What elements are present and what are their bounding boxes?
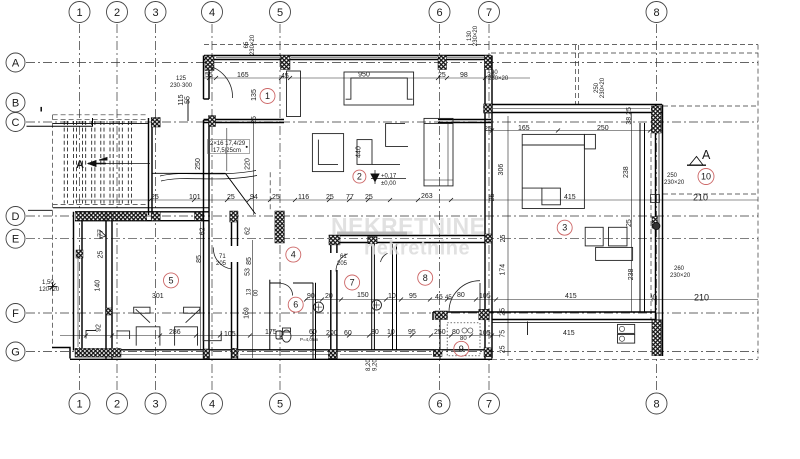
svg-text:210: 210 (694, 293, 709, 303)
svg-text:25: 25 (489, 193, 496, 201)
svg-text:101: 101 (189, 194, 201, 201)
svg-text:169: 169 (243, 307, 250, 319)
svg-text:1: 1 (76, 399, 82, 411)
svg-text:286: 286 (169, 329, 181, 336)
svg-text:301: 301 (152, 293, 164, 300)
svg-text:3: 3 (152, 399, 158, 411)
svg-text:25: 25 (227, 194, 235, 201)
svg-text:±0,00: ±0,00 (381, 181, 397, 187)
svg-text:25: 25 (365, 194, 373, 201)
svg-text:95: 95 (408, 329, 416, 336)
svg-text:165: 165 (237, 72, 249, 79)
svg-text:238: 238 (628, 268, 635, 280)
svg-text:98: 98 (460, 72, 468, 79)
svg-text:230×20: 230×20 (473, 25, 479, 46)
svg-text:230×20: 230×20 (600, 77, 606, 98)
svg-text:2: 2 (114, 399, 120, 411)
svg-text:6: 6 (293, 300, 298, 310)
svg-text:61: 61 (340, 254, 347, 260)
svg-text:17,5|25cm: 17,5|25cm (213, 148, 241, 154)
svg-text:00: 00 (254, 289, 260, 296)
svg-text:77: 77 (346, 194, 354, 201)
svg-text:230×20: 230×20 (250, 34, 256, 55)
svg-text:165: 165 (518, 125, 530, 132)
svg-text:20: 20 (325, 293, 333, 300)
svg-text:25: 25 (499, 308, 506, 316)
svg-text:140: 140 (95, 280, 102, 292)
svg-text:6: 6 (436, 399, 442, 411)
svg-text:4: 4 (209, 399, 215, 411)
svg-text:10: 10 (388, 293, 396, 300)
svg-text:9,20: 9,20 (373, 359, 379, 371)
svg-text:A: A (702, 148, 711, 162)
svg-text:8,20: 8,20 (366, 359, 372, 371)
svg-text:8: 8 (653, 399, 659, 411)
svg-text:415: 415 (563, 330, 575, 337)
svg-text:80: 80 (371, 329, 379, 336)
svg-text:62: 62 (245, 227, 252, 235)
svg-text:92: 92 (96, 324, 103, 332)
svg-text:125: 125 (176, 76, 187, 82)
svg-text:7: 7 (486, 399, 492, 411)
svg-text:250: 250 (434, 329, 446, 336)
svg-text:94: 94 (250, 194, 258, 201)
svg-text:230×20: 230×20 (664, 180, 685, 186)
svg-text:3: 3 (562, 223, 567, 233)
svg-text:250: 250 (195, 158, 202, 170)
svg-text:6: 6 (436, 7, 442, 19)
svg-text:150: 150 (357, 292, 369, 299)
svg-text:8: 8 (423, 273, 428, 283)
svg-text:75: 75 (499, 330, 506, 338)
svg-text:7: 7 (350, 278, 355, 288)
svg-text:F: F (12, 308, 19, 320)
svg-text:5: 5 (277, 399, 283, 411)
svg-text:25: 25 (652, 294, 659, 302)
svg-text:A: A (76, 159, 84, 171)
svg-text:415: 415 (564, 194, 576, 201)
svg-text:25: 25 (151, 194, 159, 201)
svg-text:85: 85 (246, 257, 253, 265)
svg-text:230×20: 230×20 (670, 273, 691, 279)
svg-text:13: 13 (247, 288, 253, 295)
svg-text:E: E (12, 234, 19, 246)
svg-text:2: 2 (114, 7, 120, 19)
svg-text:7: 7 (486, 7, 492, 19)
svg-text:105: 105 (224, 331, 236, 338)
svg-text:105: 105 (479, 330, 491, 337)
svg-text:1: 1 (265, 91, 270, 101)
svg-text:205: 205 (216, 261, 227, 267)
svg-text:D: D (12, 211, 20, 223)
svg-text:90: 90 (307, 293, 315, 300)
svg-text:105: 105 (479, 293, 491, 300)
svg-text:175: 175 (265, 329, 277, 336)
svg-text:120+20: 120+20 (39, 287, 60, 293)
svg-text:250: 250 (667, 173, 678, 179)
svg-text:440: 440 (356, 146, 363, 158)
svg-text:38.25: 38.25 (626, 107, 633, 125)
svg-text:77: 77 (98, 229, 105, 237)
svg-text:210: 210 (693, 193, 708, 203)
svg-text:5: 5 (277, 7, 283, 19)
svg-text:25: 25 (98, 251, 105, 259)
svg-text:1,50: 1,50 (42, 280, 54, 286)
svg-text:B: B (12, 98, 19, 110)
svg-text:25: 25 (251, 116, 258, 124)
svg-text:174: 174 (499, 264, 506, 276)
svg-text:nekretnine: nekretnine (364, 238, 470, 260)
svg-text:238: 238 (623, 166, 630, 178)
svg-text:25: 25 (626, 219, 633, 227)
svg-text:220: 220 (245, 158, 252, 170)
svg-text:G: G (11, 347, 20, 359)
svg-text:P=4,05m: P=4,05m (300, 337, 318, 342)
svg-text:25: 25 (272, 194, 280, 201)
svg-text:45: 45 (435, 294, 443, 301)
svg-text:415: 415 (565, 293, 577, 300)
svg-text:55: 55 (185, 96, 192, 104)
svg-text:116: 116 (298, 194, 309, 201)
svg-text:306: 306 (498, 164, 505, 176)
svg-text:85: 85 (196, 255, 203, 263)
svg-text:C: C (12, 117, 20, 129)
svg-text:950: 950 (358, 72, 370, 79)
svg-text:4: 4 (209, 7, 215, 19)
svg-text:9: 9 (459, 344, 464, 354)
svg-text:205: 205 (337, 261, 348, 267)
svg-text:230·300: 230·300 (170, 83, 193, 89)
svg-text:10: 10 (701, 172, 711, 182)
svg-text:2: 2 (357, 172, 362, 182)
svg-text:25: 25 (500, 235, 507, 243)
svg-text:230×20: 230×20 (488, 76, 509, 82)
svg-text:5: 5 (168, 275, 173, 285)
svg-text:71: 71 (219, 254, 226, 260)
svg-text:53: 53 (244, 268, 251, 276)
svg-text:2×16 17,4/29: 2×16 17,4/29 (210, 141, 246, 147)
svg-text:260: 260 (674, 266, 685, 272)
svg-text:62: 62 (200, 227, 207, 235)
svg-text:263: 263 (421, 193, 433, 200)
svg-text:3: 3 (152, 7, 158, 19)
svg-text:80: 80 (457, 292, 465, 299)
svg-text:25: 25 (326, 194, 334, 201)
svg-text:1: 1 (76, 7, 82, 19)
svg-text:25: 25 (438, 72, 446, 79)
svg-text:8: 8 (653, 7, 659, 19)
svg-text:NEKRETNINE: NEKRETNINE (331, 213, 486, 239)
svg-text:250: 250 (597, 125, 609, 132)
svg-text:4: 4 (291, 250, 296, 260)
svg-text:+0,17: +0,17 (381, 174, 397, 180)
svg-text:25: 25 (499, 345, 506, 353)
svg-text:135: 135 (251, 89, 258, 101)
svg-text:A: A (12, 58, 20, 70)
svg-text:95: 95 (409, 293, 417, 300)
svg-text:80: 80 (452, 329, 460, 336)
